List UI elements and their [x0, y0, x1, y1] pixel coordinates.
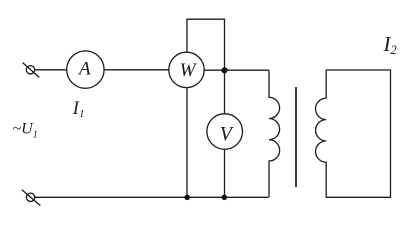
- svg-text:W: W: [180, 60, 198, 81]
- svg-text:A: A: [77, 59, 91, 80]
